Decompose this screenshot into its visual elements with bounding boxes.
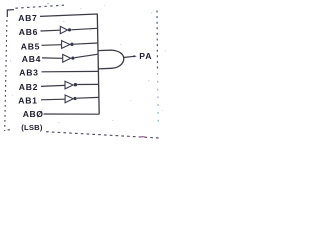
wire AB1 output — [77, 96, 99, 99]
AND gate U1 — [98, 50, 124, 69]
inverter AB4 — [63, 54, 71, 62]
border bottom dashed — [46, 132, 159, 138]
wire input bus vertical — [97, 14, 99, 115]
border right dotted — [156, 11, 159, 71]
inverter AB6 bubble — [68, 28, 71, 31]
svg-text:ABØ: ABØ — [23, 109, 44, 119]
svg-text:AB1: AB1 — [18, 96, 37, 106]
svg-text:AB3: AB3 — [19, 68, 38, 78]
border right dotted lower (faint) — [157, 73, 160, 124]
wire AB4 output — [75, 54, 98, 58]
wire AB5 input — [42, 44, 62, 47]
svg-text:(LSB): (LSB) — [21, 123, 43, 132]
wire AB6 output — [71, 28, 97, 30]
border top-left corner — [7, 10, 14, 17]
svg-text:AB2: AB2 — [19, 82, 38, 92]
wire AB7 — [40, 14, 97, 16]
wire AB4 input — [42, 57, 62, 59]
inverter AB2 bubble — [74, 83, 77, 86]
svg-text:AB7: AB7 — [18, 13, 37, 23]
wire AB0 — [44, 113, 100, 115]
wire AB6 input — [41, 29, 61, 32]
inverter AB4 bubble — [71, 57, 74, 60]
wire PA output — [124, 56, 135, 57]
wire AB2 output — [77, 83, 98, 85]
border bottom-left stub — [8, 129, 13, 131]
inverter AB1 — [65, 95, 73, 103]
scan speckle noise — [10, 3, 166, 123]
inverter AB2 — [65, 81, 73, 89]
border left dotted — [5, 20, 7, 131]
svg-text:AB6: AB6 — [19, 27, 38, 37]
wire AB3 — [42, 70, 99, 72]
svg-text:PA: PA — [139, 51, 152, 61]
inverter AB1 bubble — [74, 97, 77, 100]
border top dashed — [16, 5, 65, 8]
inverter AB6 — [60, 26, 67, 33]
inverter AB5 — [62, 41, 70, 49]
inverter AB5 bubble — [70, 43, 73, 46]
wire AB5 output — [74, 43, 98, 44]
wire AB2 input — [41, 85, 65, 86]
border bottom magenta dash — [142, 136, 145, 138]
svg-text:AB4: AB4 — [22, 54, 41, 64]
arrowhead PA — [134, 55, 137, 57]
svg-text:AB5: AB5 — [21, 42, 40, 52]
wire AB1 input — [41, 98, 65, 101]
